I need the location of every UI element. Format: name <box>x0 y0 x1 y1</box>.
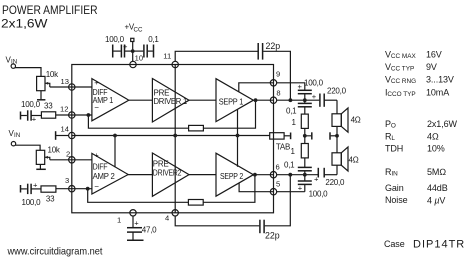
svg-text:5MΩ: 5MΩ <box>427 167 446 177</box>
wire node3 input <box>72 188 92 190</box>
svg-text:13: 13 <box>61 77 69 86</box>
svg-text:0,1: 0,1 <box>286 107 297 116</box>
wire VIN2 to pot2 <box>15 145 40 150</box>
svg-text:100,0: 100,0 <box>21 100 41 109</box>
svg-text:DIP14TR: DIP14TR <box>413 239 465 251</box>
svg-text:−: − <box>94 182 99 191</box>
ground TAB <box>290 133 292 140</box>
node 14 <box>69 132 75 138</box>
svg-text:2: 2 <box>66 150 70 159</box>
resistor feedback 1 <box>189 125 204 130</box>
op-amp DIFF AMP 1 <box>92 78 129 121</box>
wire node13 input <box>72 86 92 88</box>
node 14 internal bias rail <box>72 135 270 137</box>
svg-text:12: 12 <box>60 105 68 114</box>
wire pin6 output line <box>277 174 319 176</box>
junction rail-SEPP <box>236 134 240 138</box>
op-amp DIFF AMP 2 <box>92 151 128 194</box>
svg-text:+: + <box>312 92 317 101</box>
svg-text:PRE: PRE <box>154 89 170 98</box>
junction rail-11 <box>173 134 177 138</box>
svg-text:+: + <box>33 180 38 189</box>
wire SEPP1 out to pin8 <box>256 99 274 101</box>
wire 22p ch2 route <box>175 216 259 226</box>
svg-text:5: 5 <box>276 180 280 189</box>
wire pin11-pin4 internal vertical <box>174 65 176 213</box>
speaker 2 <box>332 147 359 171</box>
wire zobel1 to ground <box>305 128 311 135</box>
capacitor 0,1 supply <box>133 35 160 58</box>
resistor 1 zobel 1 <box>292 114 309 128</box>
right panel specs <box>385 50 458 206</box>
svg-text:2x1,6W: 2x1,6W <box>427 119 458 129</box>
svg-text:3...13V: 3...13V <box>426 75 454 85</box>
wire Vcc to node10 <box>132 42 134 62</box>
junction rail-DIFF2 <box>113 134 117 138</box>
svg-text:11: 11 <box>163 52 171 61</box>
svg-text:44dB: 44dB <box>427 183 448 193</box>
svg-text:CC: CC <box>134 27 143 34</box>
wire to speaker 1 <box>336 100 338 114</box>
node 2 <box>69 157 75 163</box>
capacitor 100,0 supply <box>105 35 133 58</box>
junction speaker mid <box>335 134 339 138</box>
svg-text:33: 33 <box>44 102 53 111</box>
potentiometer 10k P2 <box>36 145 61 164</box>
svg-text:33: 33 <box>46 195 55 204</box>
IC U1 outline <box>72 65 274 213</box>
wire node2 input <box>72 159 92 161</box>
wire PRE1 to SEPP1 <box>189 99 216 101</box>
svg-text:0,1: 0,1 <box>148 35 159 44</box>
svg-text:SEPP 2: SEPP 2 <box>220 172 244 181</box>
svg-text:16V: 16V <box>426 50 442 60</box>
svg-text:9V: 9V <box>426 62 437 72</box>
op-amp PRE DRIVER 1 <box>152 79 189 123</box>
resistor feedback 2 <box>188 200 203 206</box>
node 1 <box>130 210 136 216</box>
wire pin9 line external <box>277 83 305 90</box>
capacitor 100,0 input 2 <box>21 180 41 207</box>
wire pin9 to SEPP1 slope <box>239 83 274 92</box>
svg-text:9: 9 <box>276 70 280 79</box>
junction 22p ch2 to pin6 line <box>288 173 292 177</box>
terminal +Vcc square <box>131 38 134 41</box>
capacitor 100,0 bootstrap 2 <box>298 175 328 199</box>
capacitor 0,1 zobel 2 <box>284 136 312 175</box>
svg-text:SEPP 1: SEPP 1 <box>219 97 244 106</box>
svg-text:10: 10 <box>135 54 143 63</box>
wire pin5 to SEPP2 slope <box>239 183 273 192</box>
svg-text:220,0: 220,0 <box>327 87 347 96</box>
svg-text:PRE: PRE <box>153 160 169 169</box>
wire pot1 bottom <box>40 91 42 100</box>
speaker 1 <box>332 108 361 132</box>
svg-text:10%: 10% <box>427 144 445 154</box>
junction 22p ch1 to pin8 line <box>289 98 293 102</box>
wire cap2 to resistor 33-2 <box>31 188 41 190</box>
svg-text:100,0: 100,0 <box>304 79 324 88</box>
svg-text:POWER AMPLIFIER: POWER AMPLIFIER <box>2 3 98 17</box>
VIN input 1 label <box>6 56 18 66</box>
svg-text:DRIVER 1: DRIVER 1 <box>154 97 188 106</box>
ground zobel <box>311 132 313 139</box>
wire resistor33-2 to node3 <box>56 188 72 190</box>
svg-text:2x1,6W: 2x1,6W <box>1 17 48 31</box>
svg-text:10k: 10k <box>46 70 59 79</box>
svg-text:AMP 2: AMP 2 <box>93 172 116 181</box>
capacitor 22p ch2 <box>260 220 280 241</box>
node 6 <box>270 172 276 178</box>
wire VIN1 to pot <box>15 68 41 77</box>
svg-text:Case: Case <box>384 239 405 249</box>
svg-text:47,0: 47,0 <box>142 226 157 235</box>
svg-text:8: 8 <box>276 89 280 98</box>
junction bootstrap1 <box>303 98 307 102</box>
svg-text:1: 1 <box>117 216 121 225</box>
junction SEPP1 output <box>254 98 258 102</box>
ground input cap 2 <box>20 185 22 193</box>
wire ch1 feedback <box>88 115 188 128</box>
svg-text:+: + <box>314 175 319 184</box>
potentiometer 10k P1 <box>37 70 59 91</box>
wire 22p ch1 route <box>175 51 257 61</box>
svg-text:+: + <box>298 82 303 91</box>
svg-text:IN: IN <box>14 132 20 139</box>
junction node12 tee <box>87 113 91 117</box>
resistor 33 input 2 <box>41 186 56 204</box>
svg-text:10k: 10k <box>48 145 61 154</box>
wire DIFF1 to PRE1 <box>129 99 153 101</box>
op-amp SEPP 1 <box>216 79 253 122</box>
ground pot2 <box>36 168 46 170</box>
wire cap1 to resistor 33 <box>31 115 41 117</box>
svg-text:220,0: 220,0 <box>325 178 345 187</box>
+Vcc supply label <box>125 23 143 34</box>
junction node3 tee <box>86 187 90 191</box>
svg-text:3: 3 <box>65 176 69 185</box>
svg-text:4: 4 <box>165 214 169 223</box>
ground speaker mid <box>329 132 331 139</box>
svg-text:TDH: TDH <box>385 144 403 154</box>
ground 47,0 <box>127 239 144 241</box>
svg-text:100,0: 100,0 <box>309 190 329 199</box>
svg-text:Gain: Gain <box>385 183 404 193</box>
junction zobel mid <box>303 134 307 138</box>
capacitor 47,0 at pin1 <box>127 216 157 240</box>
junction SEPP2 output <box>253 173 257 177</box>
wire pot1 wiper to node13 <box>50 86 72 88</box>
resistor 1 zobel 2 <box>291 144 309 158</box>
svg-text:−: − <box>94 103 99 112</box>
svg-text:100,0: 100,0 <box>22 198 42 207</box>
capacitor 22p ch1 <box>258 41 280 60</box>
VIN input 2 label <box>9 129 21 139</box>
svg-text:4 µV: 4 µV <box>427 196 445 206</box>
wire pin5 line external <box>277 191 305 193</box>
wire PRE2 to SEPP2 <box>189 174 216 176</box>
wire ch2 feedback <box>88 189 189 203</box>
ground node14 <box>55 131 57 140</box>
wire pin8 output line <box>277 99 320 101</box>
wire pot2 bottom <box>39 164 41 169</box>
svg-text:4Ω: 4Ω <box>349 156 359 165</box>
wire pot2 wiper to node2 <box>50 159 72 161</box>
node 13 <box>69 84 75 90</box>
resistor 33 input 1 <box>41 102 55 119</box>
wire speaker2 to 220 ch2 <box>336 165 338 175</box>
op-amp PRE DRIVER 2 <box>152 153 189 196</box>
wire resistor33-1 to node12 <box>56 114 72 116</box>
node 8 <box>270 97 276 103</box>
op-amp SEPP 2 <box>216 153 253 196</box>
svg-text:6: 6 <box>276 163 280 172</box>
capacitor 100,0 bootstrap 1 <box>298 79 324 101</box>
node 5 <box>270 189 276 195</box>
junction bootstrap2 top <box>303 173 307 177</box>
svg-text:22p: 22p <box>265 231 280 241</box>
wire speaker1 to mid <box>336 126 338 135</box>
node 10 <box>130 61 136 67</box>
svg-text:4Ω: 4Ω <box>427 132 439 142</box>
svg-text:100,0: 100,0 <box>105 35 125 44</box>
svg-text:0,1: 0,1 <box>284 161 295 170</box>
wire rail to DIFF2 vertical <box>114 136 116 168</box>
svg-text:DRIVER2: DRIVER2 <box>153 168 182 177</box>
capacitor 0,1 zobel 1 <box>286 100 312 115</box>
svg-text:14: 14 <box>61 125 69 134</box>
wire speaker mid stub <box>331 135 337 137</box>
svg-text:DIFF: DIFF <box>93 163 108 172</box>
ground pot1 <box>37 99 45 101</box>
terminal VIN1 <box>11 64 15 68</box>
svg-text:+: + <box>134 219 139 228</box>
TAB pin rectangle <box>270 133 284 139</box>
svg-text:www.circuitdiagram.net: www.circuitdiagram.net <box>7 246 103 258</box>
wire mid to speaker 2 <box>336 136 338 153</box>
wire SEPP1 to SEPP2 bias vertical <box>237 109 239 167</box>
case label <box>384 239 465 251</box>
ground supply cap left <box>112 45 114 58</box>
junction Vcc branch <box>131 49 135 53</box>
node 12 <box>69 112 75 118</box>
terminal VIN2 <box>11 142 15 146</box>
wire DIFF2 to PRE2 <box>128 174 152 176</box>
svg-text:4Ω: 4Ω <box>351 116 361 125</box>
svg-text:+: + <box>94 78 99 87</box>
svg-text:Noise: Noise <box>385 195 408 205</box>
wire TAB to ground <box>284 135 290 137</box>
wire node12 input <box>72 114 92 116</box>
svg-text:+: + <box>94 151 99 160</box>
node 4 <box>172 210 178 216</box>
svg-text:10mA: 10mA <box>426 88 449 98</box>
node 3 <box>69 186 75 192</box>
wire node14 to ground <box>56 135 69 137</box>
ground input cap 1 <box>20 112 22 120</box>
capacitor 220,0 ch1 <box>312 87 347 107</box>
node 11 <box>172 61 178 67</box>
node 9 <box>270 80 276 86</box>
svg-text:TAB: TAB <box>276 143 290 152</box>
capacitor 220,0 ch2 <box>314 168 345 187</box>
ground supply cap right <box>153 45 155 58</box>
capacitor 100,0 input 1 <box>21 100 41 124</box>
wire SEPP2 out to pin6 <box>255 174 274 176</box>
svg-text:22p: 22p <box>266 41 281 51</box>
